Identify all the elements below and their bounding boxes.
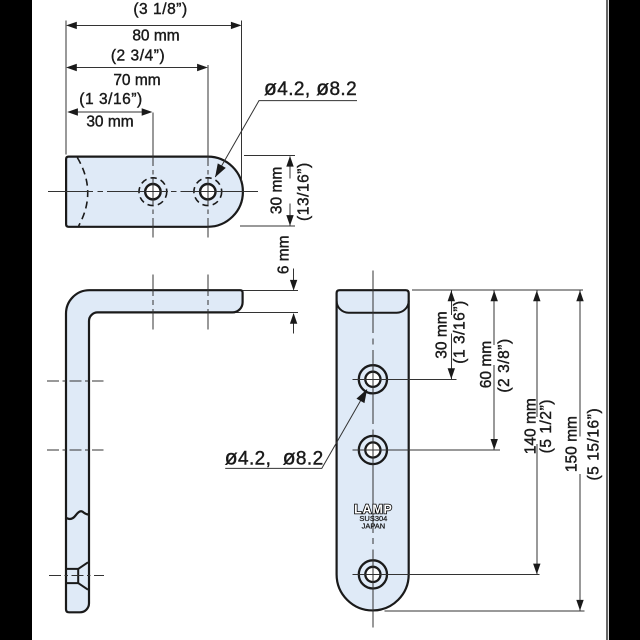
dimension 150 mm (front) xyxy=(564,290,603,611)
top view plate xyxy=(66,157,243,227)
svg-text:(5 15/16”): (5 15/16”) xyxy=(586,408,603,481)
svg-text:(3 1/8”): (3 1/8”) xyxy=(133,1,187,18)
dimension 70 mm xyxy=(66,47,208,89)
svg-text:ø4.2, ø8.2: ø4.2, ø8.2 xyxy=(225,446,324,469)
LAMP logo xyxy=(354,503,393,531)
hole F1 horizontal centerline xyxy=(353,378,457,380)
countersink centerline xyxy=(49,575,104,577)
bend line (dashed arc) xyxy=(77,158,87,227)
front view plate xyxy=(337,290,409,610)
svg-text:60 mm: 60 mm xyxy=(478,341,495,388)
dimension 80 mm xyxy=(66,1,242,45)
side view L bracket xyxy=(66,290,243,612)
left black column bar xyxy=(0,0,32,640)
extension line left (80) xyxy=(65,21,67,155)
right black column bar xyxy=(609,0,640,640)
side view vertical centerline H2 xyxy=(207,275,209,330)
hole diameter label (plan) xyxy=(211,77,357,180)
hole F2 xyxy=(359,436,387,464)
front vertical centerline xyxy=(372,271,374,628)
svg-text:6 mm: 6 mm xyxy=(276,235,293,274)
hole H2 centerline vertical xyxy=(207,65,209,238)
extension line right (80) xyxy=(241,21,243,182)
hole F1 xyxy=(353,365,457,393)
hole F3 horizontal centerline xyxy=(353,574,540,576)
right thin rule xyxy=(606,0,607,640)
hole F2 horizontal centerline xyxy=(353,449,501,451)
front top extension line xyxy=(412,289,583,291)
svg-text:150 mm: 150 mm xyxy=(564,416,581,472)
hole H2 (top view) xyxy=(194,178,222,206)
break wave line xyxy=(66,511,89,519)
dimension 140 mm (front) xyxy=(522,290,555,574)
crosshairs over plan holes xyxy=(138,179,223,206)
dimension 30 mm right of plan xyxy=(240,156,313,227)
svg-text:(1 3/16”): (1 3/16”) xyxy=(79,91,143,108)
dimension 60 mm (front) xyxy=(478,290,513,450)
side view vertical centerline H1 xyxy=(152,275,154,330)
svg-text:30 mm: 30 mm xyxy=(269,167,286,214)
svg-text:(2 3/4”): (2 3/4”) xyxy=(111,47,165,64)
dimension 6 mm xyxy=(234,235,298,333)
svg-text:(5 1/2”): (5 1/2”) xyxy=(538,399,555,453)
hole H1 (top view) xyxy=(139,178,167,206)
svg-text:30 mm: 30 mm xyxy=(86,114,133,131)
svg-text:(2 3/8”): (2 3/8”) xyxy=(496,338,513,392)
svg-text:70 mm: 70 mm xyxy=(113,72,160,89)
dimension 30 mm (front) xyxy=(433,290,468,379)
hole H1 centerline vertical xyxy=(152,113,154,238)
svg-text:JAPAN: JAPAN xyxy=(362,521,386,530)
svg-text:(1 3/16”): (1 3/16”) xyxy=(451,300,468,364)
svg-text:80 mm: 80 mm xyxy=(132,28,179,45)
countersunk hole (section) xyxy=(66,562,89,589)
dimension 30 mm (plan) xyxy=(67,91,152,131)
front bend line xyxy=(337,301,409,313)
side view hole centerline A xyxy=(47,380,104,382)
hole F3 xyxy=(359,560,387,588)
hole diameter label (front) xyxy=(225,387,371,469)
horizontal centerline xyxy=(48,191,258,193)
svg-text:140 mm: 140 mm xyxy=(522,398,539,454)
svg-text:30 mm: 30 mm xyxy=(433,311,450,358)
side view hole centerline B xyxy=(47,449,104,451)
svg-text:(13/16”): (13/16”) xyxy=(296,162,313,221)
front bottom extension line xyxy=(385,610,585,612)
svg-text:ø4.2, ø8.2: ø4.2, ø8.2 xyxy=(264,77,357,100)
redraw hole center lines over circles xyxy=(353,379,540,574)
